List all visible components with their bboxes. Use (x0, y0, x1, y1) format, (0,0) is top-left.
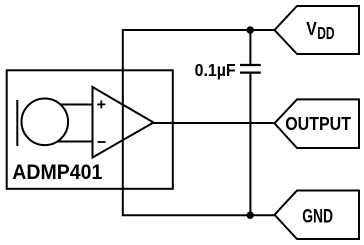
svg-text:V: V (306, 18, 317, 39)
svg-text:DD: DD (317, 23, 334, 43)
node junction dot GND (247, 212, 254, 219)
net tag OUTPUT (275, 99, 360, 148)
wire op-amp output to OUTPUT tag (153, 122, 275, 124)
svg-text:OUTPUT: OUTPUT (285, 113, 351, 134)
op-amp A1 triangle (93, 87, 154, 158)
capacitor C1 plates (240, 65, 261, 73)
label VDD text (306, 18, 334, 43)
pin label - (inverting input) (98, 141, 106, 143)
pin label + (non-inverting input) (97, 100, 105, 108)
wire capacitor bottom plate to GND wire (249, 73, 251, 215)
node junction dot VDD (247, 26, 254, 33)
svg-text:GND: GND (302, 206, 333, 228)
power tag VDD (275, 6, 360, 54)
wire VDD loop: top segment, left vertical segment, bottom GND segment (123, 30, 275, 215)
wire VDD rail to capacitor top plate (249, 30, 251, 64)
svg-text:0.1µF: 0.1µF (195, 60, 236, 80)
component U1 ADMP401 module outline (7, 70, 173, 189)
microphone MK1 capsule (22, 99, 69, 146)
wire mic to op-amp inverting input (57, 141, 92, 143)
ground tag GND (275, 191, 360, 240)
svg-text:ADMP401: ADMP401 (12, 161, 102, 184)
microphone MK1 element bar (16, 100, 18, 146)
wire mic to op-amp non-inverting input (60, 104, 92, 106)
